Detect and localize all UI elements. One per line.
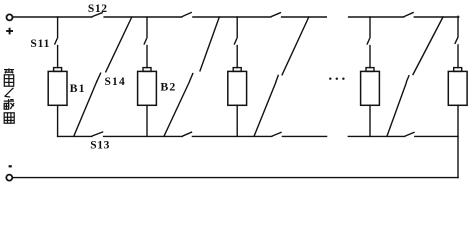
battery B2 box — [138, 71, 157, 105]
wire diagonal2 lower segment — [164, 81, 190, 136]
wire diagonal3 lower segment — [254, 82, 276, 136]
wire top bus segment 5 — [349, 16, 404, 18]
wire middle bus segment 5 — [348, 135, 405, 137]
wire middle bus segment 3 — [192, 135, 271, 137]
wire middle bus segment 4 — [282, 135, 326, 137]
wire branch4 to battery — [369, 46, 371, 68]
terminal - (negative input circle) — [6, 175, 12, 181]
switch top bus cell2 blade — [182, 13, 191, 17]
wire diagonal4 upper segment — [413, 17, 443, 75]
switch diagonal2 blade — [190, 74, 193, 81]
switch branch3 top segment — [236, 17, 238, 38]
switch branch2 top segment — [146, 17, 148, 38]
switch middle bus cell2 blade — [183, 132, 192, 136]
battery 3 box — [228, 71, 247, 105]
switch branch5 top segment (right corner) — [457, 16, 459, 37]
wire top bus segment 1 — [13, 16, 92, 18]
wire top bus segment 3 — [193, 16, 271, 18]
wire middle bus segment 2 — [104, 135, 183, 137]
wire top bus segment 2 — [104, 16, 182, 18]
battery B2 tab — [143, 68, 151, 72]
wire battery 3 to middle bus — [236, 105, 238, 136]
label + (drawn plus sign) — [6, 28, 13, 35]
battery 3 tab — [233, 68, 241, 72]
glyph char 4 — [4, 113, 14, 123]
svg-text:B1: B1 — [70, 81, 86, 95]
battery 5 box — [448, 71, 467, 105]
switch S14 blade — [97, 73, 101, 81]
ellipsis dots — [329, 78, 345, 80]
wire branch3 to battery — [236, 46, 238, 68]
svg-text:S14: S14 — [104, 76, 126, 88]
switch S13 blade — [92, 132, 102, 136]
svg-text:B2: B2 — [160, 80, 176, 94]
switch branch3 blade — [234, 39, 236, 44]
wire battery 5 down through middle bus to bottom bus — [457, 105, 459, 177]
wire battery 4 to middle bus — [369, 105, 371, 136]
switch middle bus cell3 blade — [272, 132, 281, 136]
switch branch4 top segment — [369, 17, 371, 38]
wire middle bus segment 1 — [58, 135, 92, 137]
switch middle bus cell4 blade — [405, 132, 414, 136]
switch S11 blade — [55, 39, 57, 44]
wire branch5 to battery — [457, 45, 459, 68]
wire top bus segment 4 — [282, 16, 327, 18]
battery B1 box — [48, 71, 67, 105]
switch diagonal3 blade — [276, 75, 278, 81]
switch S12 blade — [93, 13, 103, 17]
glyph char 1 — [4, 68, 14, 73]
switch S11 branch1 top segment — [57, 17, 59, 38]
switch top bus cell4 blade — [404, 13, 413, 17]
switch top bus cell3 blade — [272, 13, 281, 17]
battery B1 tab — [54, 68, 62, 72]
wire diagonal2 upper segment — [200, 17, 219, 71]
wire bottom bus — [13, 177, 458, 179]
wire diagonal4 lower segment — [387, 83, 406, 137]
glyph char 3 — [4, 99, 14, 109]
battery 5 tab — [454, 68, 462, 72]
wire branch2 to battery — [146, 46, 148, 68]
wire top bus segment 6 to top-right corner — [414, 16, 458, 18]
svg-text:S12: S12 — [88, 3, 108, 15]
switch branch2 blade — [144, 39, 146, 44]
wire branch1 to battery — [57, 46, 59, 68]
glyph slash — [5, 88, 14, 97]
wire diagonal1 lower segment — [74, 81, 97, 136]
svg-text:S13: S13 — [90, 140, 110, 152]
switch branch5 blade — [455, 38, 458, 43]
wire middle bus segment 6 — [415, 135, 458, 137]
svg-text:S11: S11 — [30, 38, 50, 50]
left side label (vertical Chinese text, drawn as stroke glyphs) — [4, 68, 15, 123]
wire diagonal3 upper segment — [282, 17, 309, 75]
wire battery B2 to middle bus — [146, 105, 148, 136]
battery 4 box — [361, 71, 380, 105]
wire diagonal1 upper segment — [106, 17, 132, 72]
glyph char 2 — [4, 75, 13, 86]
terminal + (positive input circle) — [7, 14, 13, 20]
label - (drawn minus sign) — [9, 165, 12, 167]
switch diagonal4 blade — [407, 76, 409, 82]
switch branch4 blade — [367, 39, 369, 44]
wire battery B1 to middle bus — [57, 105, 59, 136]
battery 4 tab — [366, 68, 374, 72]
